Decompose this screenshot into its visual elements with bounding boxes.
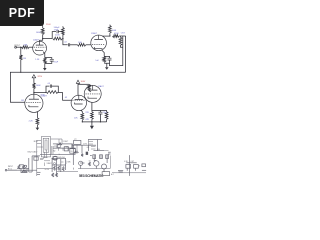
ps rail 145b (89, 144, 97, 146)
svg-text:.02: .02 (64, 97, 68, 99)
svg-text:12AU7: 12AU7 (98, 85, 105, 88)
ps stub m7 (40, 159, 43, 161)
ps stub m3 (67, 148, 69, 151)
ps rail 145 (72, 144, 89, 146)
ps stub n1 (58, 139, 60, 144)
ps wire input (7, 169, 17, 171)
ps comp row c (106, 155, 109, 159)
ps transistor Q3 (79, 161, 83, 165)
ps rail top2 (51, 139, 62, 144)
wire R1 to V1 grid (29, 46, 33, 48)
ps resistor f (56, 173, 58, 177)
resistor R5 divider (62, 28, 65, 36)
svg-text:6.3: 6.3 (87, 147, 89, 149)
wire bottom bus row2 (82, 121, 106, 123)
wire coupling down (63, 39, 68, 45)
wire R18 to bus (106, 119, 108, 122)
wire V2 cath top link (104, 56, 109, 58)
ps resistor grid (18, 165, 20, 169)
resistor R11 cathode (103, 56, 106, 62)
ps rail 148 (53, 147, 76, 149)
svg-text:6SQ7 12AX7: 6SQ7 12AX7 (28, 151, 38, 154)
resistor R3 plate load (41, 28, 44, 35)
wire V1 plate up (40, 39, 43, 42)
ps bus bottom1b (37, 168, 53, 170)
svg-text:5: 5 (59, 154, 60, 156)
ps q wires (80, 165, 82, 168)
ps resistor filt1 (58, 143, 62, 145)
wire ground bus row1 (10, 72, 125, 102)
wire R18 stems (106, 110, 108, 111)
ps wire right h (126, 162, 136, 164)
ps comp hatch a (93, 155, 95, 159)
svg-text:270K: 270K (40, 95, 45, 97)
svg-text:270K: 270K (54, 29, 59, 31)
node plate (42, 38, 43, 39)
wire plate node right (43, 38, 53, 40)
capacitor C5 (50, 85, 51, 88)
ps box top (74, 140, 81, 144)
ps mesh h1 (52, 164, 66, 166)
svg-text:68K: 68K (68, 162, 72, 164)
wire feedback outer (125, 36, 127, 72)
power supply sub-schematic (5, 137, 146, 178)
wire R10 bottom (121, 45, 123, 47)
wire V2 plate up (102, 35, 110, 37)
ps stub m2 (62, 148, 64, 151)
svg-text:8: 8 (139, 165, 140, 167)
capacitor C3 bypass (50, 59, 54, 61)
svg-text:22K: 22K (85, 112, 89, 114)
ps tick bus1 (56, 168, 58, 170)
junction row2 a (82, 121, 83, 122)
ps ladder left (88, 140, 90, 146)
ps riser mid97 (97, 140, 99, 151)
ps resistor m3 (62, 167, 64, 172)
wire V2 cathode (102, 50, 105, 57)
svg-text:12AX7: 12AX7 (91, 32, 98, 35)
wire cathode to ground (44, 63, 46, 68)
wire R12 to V3 plate (33, 89, 35, 95)
svg-text:MOD: MOD (34, 141, 39, 143)
ps comp hatch c (106, 155, 108, 159)
node coupling (62, 38, 63, 39)
ps t1 stub left3 (37, 146, 43, 148)
wire B+ arrow stem (33, 78, 35, 83)
wire bridge top right (59, 32, 63, 39)
ps resistor e (52, 173, 54, 177)
ps marks right2 (108, 153, 111, 155)
ps t1 bottom tick (43, 157, 48, 159)
triode V2 (91, 35, 107, 51)
input jack J1 (15, 46, 17, 48)
capacitor C6 (98, 112, 102, 114)
resistor R16 (81, 113, 84, 120)
ground V3 cathode (36, 128, 40, 131)
ps socket a pin (126, 168, 128, 171)
ps riser3 (60, 159, 62, 172)
wire V4a cathode (81, 110, 83, 113)
svg-text:100K: 100K (36, 85, 41, 87)
svg-text:1uF: 1uF (95, 60, 99, 62)
wire V3 plate right (34, 92, 46, 94)
ps cap can1 (64, 147, 68, 151)
ps t1 drop2 (45, 150, 47, 158)
ps cap can2 (70, 149, 76, 154)
wire R15 to V4b (89, 91, 91, 92)
svg-text:100K: 100K (112, 30, 117, 32)
svg-text:50: 50 (89, 160, 91, 162)
svg-text:10K: 10K (74, 118, 78, 120)
resistor R18 (105, 112, 108, 120)
resistor R4 (53, 37, 63, 40)
resistor R10 divider (119, 37, 122, 45)
ps t1 stub left1 (37, 139, 42, 141)
ps ladder tick3 (91, 146, 96, 148)
power B+ arrow (76, 80, 79, 83)
ps bus bottom3 (78, 168, 110, 170)
svg-text:350: 350 (97, 149, 100, 151)
triode V1 (33, 41, 47, 55)
wire V3 cathode down (36, 112, 38, 118)
capacitor C4 bypass (108, 58, 112, 60)
ps wire net2 (19, 164, 24, 166)
ps transistor blob (86, 152, 88, 155)
wire C2 to R6 (70, 44, 78, 46)
wire R14 to ground (36, 125, 38, 128)
ps riser 77 (76, 145, 78, 151)
wire cathode top link (45, 58, 52, 60)
wire to V4 grid (58, 93, 71, 101)
ps stub left2 (37, 174, 40, 176)
svg-text:220K: 220K (55, 35, 60, 37)
wire V4b cathode down (91, 102, 93, 111)
ps mark n4 (44, 160, 50, 162)
capacitor C2 coupling (68, 43, 69, 46)
ps box small (34, 157, 38, 160)
ps stub m1 (58, 148, 60, 151)
ps socket a (126, 165, 131, 169)
ps wire net3 (21, 169, 27, 173)
svg-text:OUT: OUT (121, 32, 126, 34)
ps resistor n3 (74, 151, 79, 153)
ps resistor h (89, 162, 91, 166)
resistor R13 (46, 91, 58, 94)
capacitor C1 bridge (57, 30, 58, 33)
ps rail 158 (52, 157, 66, 159)
wire R8 bottom (109, 33, 111, 36)
junction bus left (20, 72, 21, 73)
svg-text:470: 470 (54, 146, 57, 148)
svg-text:300V: 300V (81, 81, 86, 83)
ps transistor Q2 (102, 164, 107, 169)
ps small box n1 (58, 145, 61, 148)
ps left vert 73 (72, 145, 74, 165)
ps drop2 (72, 144, 74, 149)
junction row2 c (100, 121, 101, 122)
ps rail 144 (53, 143, 58, 145)
ps ladder tick4 (91, 148, 96, 150)
triode V3 (25, 94, 43, 112)
title box (102, 172, 110, 176)
ps wire riser a (28, 158, 30, 172)
ps comp row b (100, 155, 103, 159)
resistor R15 (88, 84, 91, 90)
wire C6 bottom (99, 114, 101, 122)
ps wire right v (128, 155, 130, 176)
ps riser1 (51, 158, 53, 172)
ps left rail (36, 140, 38, 176)
junction row2 b (91, 121, 92, 122)
ps rail 150 (94, 150, 105, 152)
wire R10 top stem (120, 36, 122, 37)
ps marks lowmid (80, 162, 84, 164)
resistor R7 cathode (43, 58, 46, 64)
wire V2 cath ground stem (106, 63, 108, 67)
ps transformer T1 mid loop (43, 138, 49, 152)
svg-text:250V: 250V (46, 24, 51, 26)
wire R6 to V2 grid (86, 44, 91, 46)
resistor R12 plate load V3 (33, 83, 36, 89)
wire B+ down to V4a (77, 83, 79, 95)
wire RC2 left post (46, 86, 49, 93)
ps transformer T1 outer loop (41, 137, 50, 157)
wire node to R2 (20, 47, 22, 55)
ps socket b (134, 165, 139, 169)
ps ladder tick1 (89, 141, 94, 143)
svg-text:100K: 100K (36, 32, 41, 34)
ps riser far (110, 156, 112, 169)
wire R9 to right column (119, 35, 126, 37)
svg-text:2.2K: 2.2K (29, 120, 34, 122)
svg-text:1M: 1M (23, 58, 26, 60)
ps q wires3 (103, 169, 105, 172)
ps resistor grid2 (23, 165, 25, 169)
ps comp row a (93, 155, 96, 159)
ground V1 cathode (43, 68, 47, 71)
ps resistor net (22, 170, 27, 172)
ps wire net1 (17, 168, 29, 170)
wire C6 stem (99, 110, 101, 112)
ground row2 (90, 126, 94, 130)
resistor R14 cathode V3 (36, 118, 39, 125)
ps comp a down (94, 159, 96, 161)
ps resistor m2 (58, 166, 60, 171)
ps tick bus2 (72, 168, 74, 170)
ps rail 154 (40, 153, 76, 155)
svg-text:470K: 470K (114, 33, 119, 35)
ps far right marks (142, 169, 146, 171)
svg-text:325V: 325V (37, 76, 42, 78)
wire R8 to node (109, 24, 111, 27)
ps rail 150 ext (104, 150, 109, 152)
svg-text:12AX7: 12AX7 (33, 39, 40, 42)
svg-text:8Ω: 8Ω (53, 151, 56, 153)
svg-text:47K: 47K (85, 119, 89, 121)
ps t1 drop1 (43, 152, 45, 157)
wire R16 to bottom bus (81, 120, 83, 122)
svg-text:1K 20: 1K 20 (45, 169, 49, 171)
wire B+ rail right (78, 83, 89, 85)
wire ground stem row2 (91, 122, 93, 126)
svg-text:OUT: OUT (131, 161, 135, 163)
ps cap right small (118, 170, 123, 172)
svg-text:.02: .02 (64, 42, 68, 44)
resistor R6 (78, 43, 86, 46)
ps resistor g (81, 154, 83, 157)
svg-text:5Y3GT: 5Y3GT (63, 141, 68, 143)
wire V2 cath bottom link (104, 60, 109, 63)
ps riser mid82 top (81, 145, 83, 153)
ps t1 stub left2 (37, 143, 42, 145)
ps marks midleft (90, 155, 92, 157)
ps jack (5, 169, 7, 171)
ps jack far right (142, 164, 146, 167)
resistor R9 (113, 35, 120, 38)
ps stub m6 (40, 157, 44, 159)
ps wire top left (32, 155, 40, 157)
wire R3 bottom stem (42, 35, 44, 39)
svg-text:1M: 1M (21, 100, 24, 102)
svg-text:20: 20 (71, 151, 73, 153)
ps socket b pin (135, 168, 137, 171)
ps drop1 (56, 144, 58, 148)
wire R5 top (62, 26, 64, 27)
svg-text:5E3 SCHEMATIC: 5E3 SCHEMATIC (79, 174, 104, 178)
ps bus right (112, 172, 146, 174)
wire input to R1 (17, 46, 22, 48)
ps resistor m1 (54, 166, 56, 171)
ground V2 cathode (105, 67, 109, 70)
wire feedback inner (110, 36, 123, 66)
ps rail 139b (88, 139, 102, 141)
wire R3 top (42, 25, 44, 28)
chassis symbol triangle (32, 75, 36, 78)
svg-text:A-2: A-2 (111, 173, 114, 176)
ps comp hatch b (100, 155, 102, 159)
ps transistor Q1 (94, 161, 99, 166)
ps stub m5 (61, 161, 64, 163)
resistor R17 (91, 112, 94, 120)
ps marks right1 (108, 151, 111, 153)
ps wire stub1 (29, 171, 32, 173)
ps winding strokes b (52, 146, 54, 154)
ps pot (24, 165, 26, 167)
ps q wires2 (95, 166, 97, 169)
ps mark n5 (44, 163, 46, 167)
svg-text:25uF: 25uF (54, 61, 59, 63)
resistor R2 1M (19, 55, 22, 60)
ps riser2 (56, 158, 58, 176)
ps small circle m (54, 163, 56, 165)
ps rail 144b (62, 143, 73, 145)
triode V4a (71, 95, 86, 110)
wire V1 cathode (43, 52, 45, 58)
wire top link right (92, 109, 107, 111)
svg-text:12AX7: 12AX7 (47, 162, 52, 165)
node grid junction (20, 47, 21, 48)
ps stub m4 (71, 144, 73, 148)
ps mark n7 (65, 161, 67, 165)
wire RC bridge top (52, 32, 56, 39)
ps bus bottom (10, 169, 37, 171)
ps riser4 (65, 158, 67, 170)
ps comp c down (106, 159, 108, 164)
wire R17 to bottom bus (91, 119, 93, 122)
wire R2 to bus (20, 60, 22, 73)
ps wire riser b (31, 156, 33, 172)
resistor R8 plate load (109, 26, 112, 34)
ps bus bottom2 (57, 171, 78, 173)
ps box mid (53, 157, 57, 160)
ps stub left1 (37, 171, 41, 173)
ps ladder tick2 (89, 143, 94, 145)
triode V4b (84, 85, 101, 102)
svg-text:1.5K: 1.5K (35, 59, 40, 61)
wire RC2 top right (52, 86, 58, 93)
resistor R1 (22, 46, 30, 49)
ps winding strokes a (51, 146, 53, 154)
wire cathode bottom link (45, 61, 52, 63)
ps riser mid88 (88, 145, 90, 151)
node V3 plate (33, 92, 34, 93)
ps transformer T1 inner loop (45, 140, 47, 150)
ps cap right small2 (119, 171, 123, 173)
node V2 plate (109, 35, 110, 36)
ps rectifier tube (53, 156, 57, 160)
